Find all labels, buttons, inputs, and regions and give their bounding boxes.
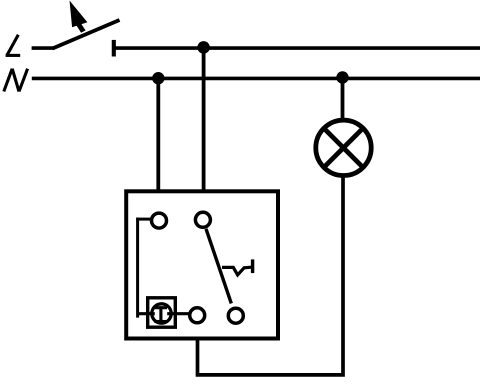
glow lamp circle	[152, 304, 171, 323]
switch blade inside box	[206, 229, 231, 304]
fixed contact tick	[112, 40, 116, 57]
wire drop N to box	[156, 78, 160, 190]
actuator symbol	[222, 259, 253, 275]
label N	[4, 69, 28, 92]
terminal (bottom-right)	[228, 308, 243, 323]
node on N line (lamp)	[336, 71, 348, 83]
lamp E1	[316, 120, 371, 175]
wire L stub	[32, 46, 54, 50]
wire drop N to lamp	[341, 78, 345, 121]
node on N line (left)	[152, 72, 164, 84]
label L	[6, 35, 21, 56]
node on L line	[197, 41, 210, 54]
terminal (bottom-middle)	[190, 308, 205, 323]
terminal (top-right)	[195, 212, 210, 227]
glow lamp lead left	[138, 312, 155, 315]
glow lamp box	[148, 298, 176, 327]
glow lamp lead right	[167, 312, 190, 315]
wire bent (terminal to glow lamp)	[136, 218, 151, 318]
wire N line	[32, 77, 480, 81]
wire L line	[114, 46, 480, 50]
terminal (top-left)	[152, 213, 167, 228]
switch insert box	[126, 191, 278, 338]
wire lamp to bottom run	[198, 176, 344, 375]
wire drop L to box	[202, 48, 206, 190]
switch blade (open)	[53, 20, 120, 49]
actuation arrow	[70, 1, 88, 33]
glow lamp electrodes (I shape)	[154, 306, 167, 323]
